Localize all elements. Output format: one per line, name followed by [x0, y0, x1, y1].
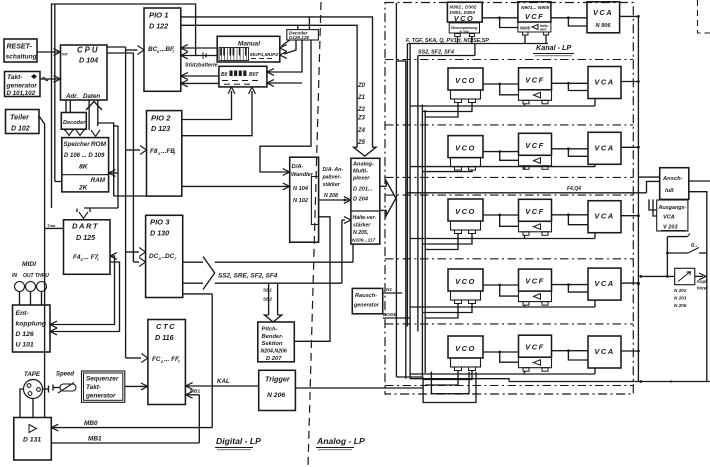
label Kanal-LP [533, 43, 574, 56]
wires under channel 2 [410, 99, 595, 118]
svg-text:VCF: VCF [525, 141, 545, 150]
wire SS2 bus line upper [215, 261, 353, 263]
VCF N901 channel 1 [518, 2, 551, 35]
svg-text:Stützbatterie: Stützbatterie [185, 63, 218, 69]
wire sum to mixer box [638, 176, 659, 178]
wire bus jog into analog [396, 61, 405, 379]
analog bus verticals [396, 3, 425, 379]
svg-text:PIO 2: PIO 2 [151, 114, 171, 123]
CPU Adr lines to Decoder [66, 100, 70, 113]
svg-text:N 206: N 206 [267, 392, 285, 399]
wire VCO-VCF channel 4 [483, 214, 519, 227]
svg-text:stärker: stärker [353, 223, 371, 229]
VCA channel 4 [588, 201, 621, 233]
wires Manual to PIO1 [181, 45, 217, 59]
wire decoder to D/A-Wandler [260, 40, 311, 175]
bottom common wire [509, 380, 710, 383]
svg-text:N 203: N 203 [674, 296, 687, 301]
svg-text:Sequenzer: Sequenzer [86, 376, 119, 383]
VCA sum bus vertical [637, 16, 640, 381]
Z bus arrowhead into multiplexer [354, 147, 376, 156]
svg-text:plexer: plexer [352, 176, 370, 182]
svg-text:N 202: N 202 [674, 288, 687, 293]
wire MB0 [51, 294, 212, 431]
svg-text:D 106 ... D 109: D 106 ... D 109 [64, 153, 105, 159]
bottom wire loops [396, 372, 509, 403]
wire Z bus lower [181, 25, 357, 147]
svg-text:Speicher: Speicher [64, 141, 91, 148]
PIO2 D123 box [147, 111, 182, 197]
svg-text:SS2, SF2, SF4: SS2, SF2, SF4 [418, 50, 454, 56]
svg-text:D 104: D 104 [79, 56, 98, 65]
VCO channel 6 [448, 336, 483, 371]
wire noise out 1 [383, 287, 403, 293]
svg-text:D/A- An-: D/A- An- [323, 167, 344, 173]
Sequenzer Takt-generator box [82, 371, 125, 402]
svg-text:VCF: VCF [525, 277, 545, 286]
svg-text:SB1: SB1 [263, 288, 272, 293]
svg-text:2K: 2K [78, 185, 89, 192]
svg-text:FC: FC [152, 356, 161, 363]
svg-text:U 101: U 101 [16, 342, 34, 349]
svg-text:B07: B07 [249, 72, 258, 78]
svg-text:INT: INT [62, 53, 69, 57]
VCA N906 channel 1 [587, 2, 620, 33]
wire main output [689, 181, 710, 382]
svg-text:TAPE: TAPE [24, 371, 41, 378]
svg-text:N 205,: N 205, [353, 230, 368, 236]
wire VCF-VCA channel 2 [552, 82, 589, 91]
MIDI label and DIN sockets [12, 261, 49, 305]
wire VCA output channel 1 [620, 15, 640, 18]
svg-text:Ent-: Ent- [16, 310, 30, 317]
svg-text:Kopf-: Kopf- [697, 279, 709, 284]
bus arrow into PIO2 [126, 146, 147, 155]
svg-text:D 102: D 102 [11, 126, 30, 133]
svg-text:VCO: VCO [455, 344, 476, 353]
wire VCO-VCF channel 2 [483, 83, 519, 95]
svg-text:N906: N906 [520, 26, 531, 31]
D/A-Wandler box [290, 157, 319, 242]
wire noise out 2 [383, 312, 410, 318]
svg-text:VCF: VCF [525, 207, 545, 216]
wires decoder to Z bus [298, 17, 310, 30]
TAPE DIN connector [24, 371, 49, 399]
wire VCA output channel 3 [621, 146, 640, 149]
svg-text:kopplung: kopplung [16, 321, 47, 328]
wire Z bus upper [181, 17, 373, 147]
VCF channel 2 [519, 68, 552, 104]
VCA channel 6 [588, 336, 621, 368]
wire MB1 [51, 389, 200, 444]
svg-text:B0: B0 [221, 72, 228, 78]
VCA channel 2 [588, 67, 621, 99]
DART select arrow [77, 208, 118, 219]
svg-text:generator: generator [353, 303, 380, 309]
svg-text:VCO: VCO [455, 144, 476, 153]
wire Teiler down to D131 [39, 116, 45, 418]
SS2 bus arrow from PIO3 [183, 257, 215, 290]
svg-text:Analog - LP: Analog - LP [316, 436, 365, 446]
svg-text:N901... N905: N901... N905 [521, 5, 550, 11]
svg-text:Speed: Speed [56, 372, 74, 378]
svg-text:Sektion: Sektion [262, 341, 283, 347]
Entkopplung D126 box [13, 305, 51, 352]
wire PIO2 to D/A-Wandler [182, 183, 290, 190]
multiplexer output arrow [380, 181, 396, 216]
wire RESET to CPU [37, 49, 69, 57]
svg-text:Teiler: Teiler [10, 113, 30, 122]
dashed separator digital/analog [308, 2, 321, 466]
label Analog-LP [316, 436, 365, 450]
label SS2 SRE SF2 SF4 [218, 273, 278, 280]
wire VCF-VCA channel 4 [552, 213, 589, 224]
svg-text:Wandler: Wandler [291, 172, 314, 178]
wire control bus line1 [407, 43, 548, 45]
svg-text:D/A-: D/A- [292, 164, 304, 170]
DART D125 box [64, 220, 111, 274]
label control bus F TGF SKA [406, 38, 489, 44]
wire TAPE to D131 [20, 389, 33, 418]
wire VCF-VCA channel 3 [552, 147, 589, 156]
svg-text:V 203: V 203 [663, 225, 679, 231]
svg-text:VCO: VCO [454, 14, 475, 23]
VCF channel 4 [519, 199, 552, 235]
VCO channel 5 [448, 269, 483, 304]
svg-text:Decoder: Decoder [63, 120, 86, 126]
svg-text:Digital - LP: Digital - LP [216, 436, 261, 446]
wires under channel 4 [410, 233, 595, 250]
svg-text:VCO: VCO [455, 207, 476, 216]
svg-text:IN: IN [12, 273, 17, 279]
svg-text:Takt-: Takt- [86, 384, 101, 391]
svg-text:N1: N1 [386, 287, 392, 292]
Decoder select arrows to Speicher [65, 129, 85, 136]
svg-text:8K: 8K [79, 164, 89, 171]
svg-text:Kanal - LP: Kanal - LP [536, 43, 571, 52]
wire VCA output channel 5 [621, 282, 640, 285]
CPU Daten bus arrows [86, 100, 147, 208]
dashed corner top right [698, 0, 710, 33]
bus arrows into PIO3 [126, 248, 146, 267]
wire VCF-VCA channel 5 [552, 283, 589, 292]
wires VCF pins to bus channel 1 [525, 35, 546, 44]
VCA channel 3 [588, 132, 621, 164]
svg-text:Ausgangs-: Ausgangs- [658, 205, 687, 211]
bus arrow into PIO1 [126, 46, 144, 55]
svg-text:Trigger: Trigger [265, 375, 291, 384]
svg-text:N 208: N 208 [324, 193, 338, 199]
Trigger N206 box [259, 370, 296, 410]
VCF channel 6 [519, 335, 552, 371]
wires panel to PIO1 [181, 73, 219, 87]
svg-text:VCA: VCA [594, 78, 614, 87]
labels N202 N203 N205 [674, 288, 687, 308]
wire VCF-VCA channel 1 [551, 16, 587, 26]
VCF channel 5 [519, 269, 552, 305]
wires VCO pins to bus channel 1 [458, 37, 475, 56]
svg-text:OUT: OUT [23, 273, 35, 279]
svg-text:Z3: Z3 [357, 116, 366, 122]
svg-text:D128,129: D128,129 [289, 35, 309, 40]
svg-text:Ansch-: Ansch- [662, 176, 683, 182]
svg-text:Z0: Z0 [357, 83, 366, 89]
svg-text:D 126: D 126 [16, 331, 34, 338]
Ausgangs-VCA V203 box [657, 200, 688, 231]
wire VCF-VCA channel 6 [552, 349, 589, 360]
wires mixer to output VCA [649, 199, 657, 216]
svg-text:Analog-: Analog- [352, 162, 374, 168]
svg-text:Manual: Manual [238, 41, 260, 48]
svg-text:stärker: stärker [323, 182, 341, 188]
CPU D104 box [61, 45, 108, 100]
svg-text:generator: generator [6, 83, 38, 90]
Teiler D102 box [6, 110, 40, 134]
label TMA at DART input [45, 223, 64, 228]
wire VCA output channel 6 [621, 350, 640, 353]
wires Decoder to panel [267, 40, 302, 86]
svg-text:Z1: Z1 [357, 95, 366, 101]
wire SS2 bus line lower [215, 262, 342, 283]
svg-text:SB2: SB2 [263, 297, 272, 302]
Halteverstaerker section [352, 215, 377, 244]
svg-text:RAM: RAM [91, 177, 106, 184]
svg-text:generator: generator [85, 393, 116, 400]
RAM select arrow [109, 170, 118, 177]
label D/A-Anpassverstaerker [322, 167, 344, 199]
Takt-generator box [5, 72, 41, 97]
svg-text:CPU: CPU [77, 46, 99, 55]
svg-text:RESET-: RESET- [7, 44, 33, 51]
svg-text:Tma: Tma [47, 223, 56, 228]
bus arrow into CTC [126, 354, 148, 363]
wire multiplexer bottom stub [352, 244, 354, 262]
wire VCO-VCF channel 6 [483, 351, 519, 363]
svg-text:VCF: VCF [525, 12, 544, 21]
svg-text:MB0: MB0 [84, 420, 98, 427]
Anschluss box [660, 168, 689, 200]
svg-text:Daten: Daten [83, 93, 100, 100]
svg-text:N 205: N 205 [674, 303, 687, 308]
svg-text:VCF: VCF [525, 75, 545, 84]
svg-text:VCA: VCA [594, 347, 614, 356]
svg-text:D 122: D 122 [149, 22, 168, 31]
svg-text:CTC: CTC [156, 322, 176, 331]
svg-text:VCF: VCF [525, 343, 545, 352]
svg-text:MUP1,MUP2: MUP1,MUP2 [250, 52, 278, 58]
svg-text:N302 , D302: N302 , D302 [450, 5, 477, 11]
svg-text:KAL: KAL [217, 378, 230, 385]
svg-text:PIO 3: PIO 3 [150, 218, 170, 227]
VCO channel 4 [448, 199, 483, 234]
svg-text:VCA: VCA [593, 8, 613, 17]
svg-text:..DC: ..DC [162, 253, 175, 260]
Rauschgenerator box [352, 288, 382, 313]
Speicher ROM RAM box [62, 138, 109, 192]
svg-text:DART: DART [72, 222, 99, 231]
svg-text:hörer: hörer [697, 286, 708, 291]
svg-text:D 131: D 131 [23, 437, 41, 444]
VCO N302 channel 1 [447, 2, 482, 36]
svg-text:THRU: THRU [35, 273, 49, 279]
sample hold input arrow [342, 217, 351, 263]
pitch bender arrow [263, 283, 282, 322]
svg-text:D 125: D 125 [76, 233, 96, 242]
analog outer dashed box [385, 3, 633, 395]
label Stuetzbatterie [185, 63, 218, 69]
svg-text:Multi-: Multi- [353, 169, 368, 175]
svg-text:VCA: VCA [594, 279, 614, 288]
wires PIO2 to panel [182, 87, 256, 136]
VCO channel 3 [448, 136, 483, 171]
svg-text:SS2, SRE, SF2, SF4: SS2, SRE, SF2, SF4 [218, 273, 278, 280]
svg-text:N109...117: N109...117 [352, 238, 375, 244]
svg-text:Z2: Z2 [357, 107, 366, 113]
CPU address bus to PIOs [107, 47, 134, 358]
PIO1 D122 box [144, 8, 181, 91]
label Digital-LP [215, 436, 261, 450]
svg-text:Halte-ver-: Halte-ver- [353, 215, 377, 221]
wire D/A to multiplexer [319, 197, 351, 204]
wire Takt to CPU [40, 76, 61, 83]
label bus SS2 SF2 SF4 [418, 50, 454, 56]
svg-text:Takt-: Takt- [7, 74, 23, 81]
svg-text:N 102: N 102 [293, 198, 309, 204]
svg-text:D 116: D 116 [155, 333, 175, 342]
svg-text:F4,Q4: F4,Q4 [567, 186, 581, 192]
wire VCA output channel 4 [621, 214, 640, 217]
svg-text:Z5: Z5 [357, 140, 366, 146]
wire DART-MIDI 2 [50, 262, 120, 335]
headphone level potentiometer [639, 268, 708, 290]
svg-text:wert: wert [540, 28, 547, 32]
svg-text:N204,N206: N204,N206 [261, 349, 287, 355]
svg-text:luß: luß [665, 188, 674, 194]
Decoder D128,129 box [287, 30, 319, 41]
wire DART-MIDI 1 [50, 253, 117, 328]
svg-text:D 204: D 204 [353, 197, 369, 203]
Speed potentiometer [53, 372, 76, 394]
svg-text:PIO 1: PIO 1 [149, 11, 168, 20]
PIO3 D130 box [146, 215, 183, 297]
output switch [666, 234, 707, 277]
svg-text:VCA: VCA [594, 212, 614, 221]
VCO channel 2 [448, 68, 483, 103]
wires under channel 6 [410, 368, 595, 385]
Analog-Multiplexer box [351, 158, 380, 244]
svg-text:Z4: Z4 [357, 128, 366, 134]
wire control bus line2 [418, 55, 475, 57]
wire KAL [186, 378, 259, 389]
VCF channel 3 [519, 133, 552, 169]
Decoder box [61, 113, 86, 130]
wire VCO-VCF channel 3 [483, 150, 519, 160]
Manual keyboard box [217, 36, 280, 62]
svg-text:N 304: N 304 [459, 30, 468, 34]
wires Decoder to Manual [280, 40, 296, 58]
wires under channel 5 [410, 300, 595, 318]
svg-text:VCA: VCA [663, 215, 675, 221]
CPU top frame wire [52, 4, 196, 208]
svg-text:Rausch-: Rausch- [355, 293, 377, 299]
svg-text:D 130: D 130 [150, 229, 169, 238]
svg-text:D 207: D 207 [266, 356, 282, 362]
CPU left bus wires [55, 4, 62, 182]
CTC D116 box [148, 320, 186, 405]
wire VCO-VCF channel 1 [482, 16, 518, 27]
wires under channel 3 [410, 164, 595, 171]
svg-text:D 123: D 123 [151, 124, 170, 133]
svg-text:DC: DC [149, 253, 159, 260]
svg-text:F8: F8 [150, 148, 158, 155]
D131 tape interface box [14, 418, 52, 461]
svg-text:D 201...: D 201... [353, 187, 373, 193]
Pitch-Bender-Sektion box [258, 322, 295, 362]
wire Pitch-Bender to bus [294, 217, 330, 341]
dashed channel separators [385, 60, 633, 386]
svg-text:Adr.: Adr. [65, 93, 78, 100]
svg-text:schaltung: schaltung [6, 54, 37, 61]
RESET-schaltung box [4, 39, 37, 62]
wire Trigger output [295, 387, 423, 389]
svg-text:VCA: VCA [594, 143, 614, 152]
wire VCA output channel 2 [621, 80, 640, 83]
svg-text:D 101,102: D 101,102 [7, 90, 36, 97]
wire VCO-VCF channel 5 [483, 284, 519, 297]
svg-text:N 906: N 906 [596, 23, 612, 29]
svg-text:Pitch-: Pitch- [262, 327, 278, 333]
panel buttons box [219, 66, 267, 87]
wire F4 Q4 line [406, 181, 660, 192]
labels Z0-Z5 [357, 83, 366, 146]
svg-text:VCO: VCO [455, 277, 476, 286]
svg-text:paßver-: paßver- [322, 175, 342, 181]
svg-text:N 104: N 104 [293, 186, 309, 192]
svg-text:MIDI: MIDI [22, 261, 36, 268]
svg-text:MB1: MB1 [88, 436, 102, 443]
svg-text:VCO: VCO [455, 76, 476, 85]
svg-text:Bender-: Bender- [262, 334, 284, 340]
svg-text:ROM: ROM [91, 141, 107, 148]
wire Sequenzer to CTC [125, 383, 148, 390]
VCA channel 5 [588, 268, 621, 300]
